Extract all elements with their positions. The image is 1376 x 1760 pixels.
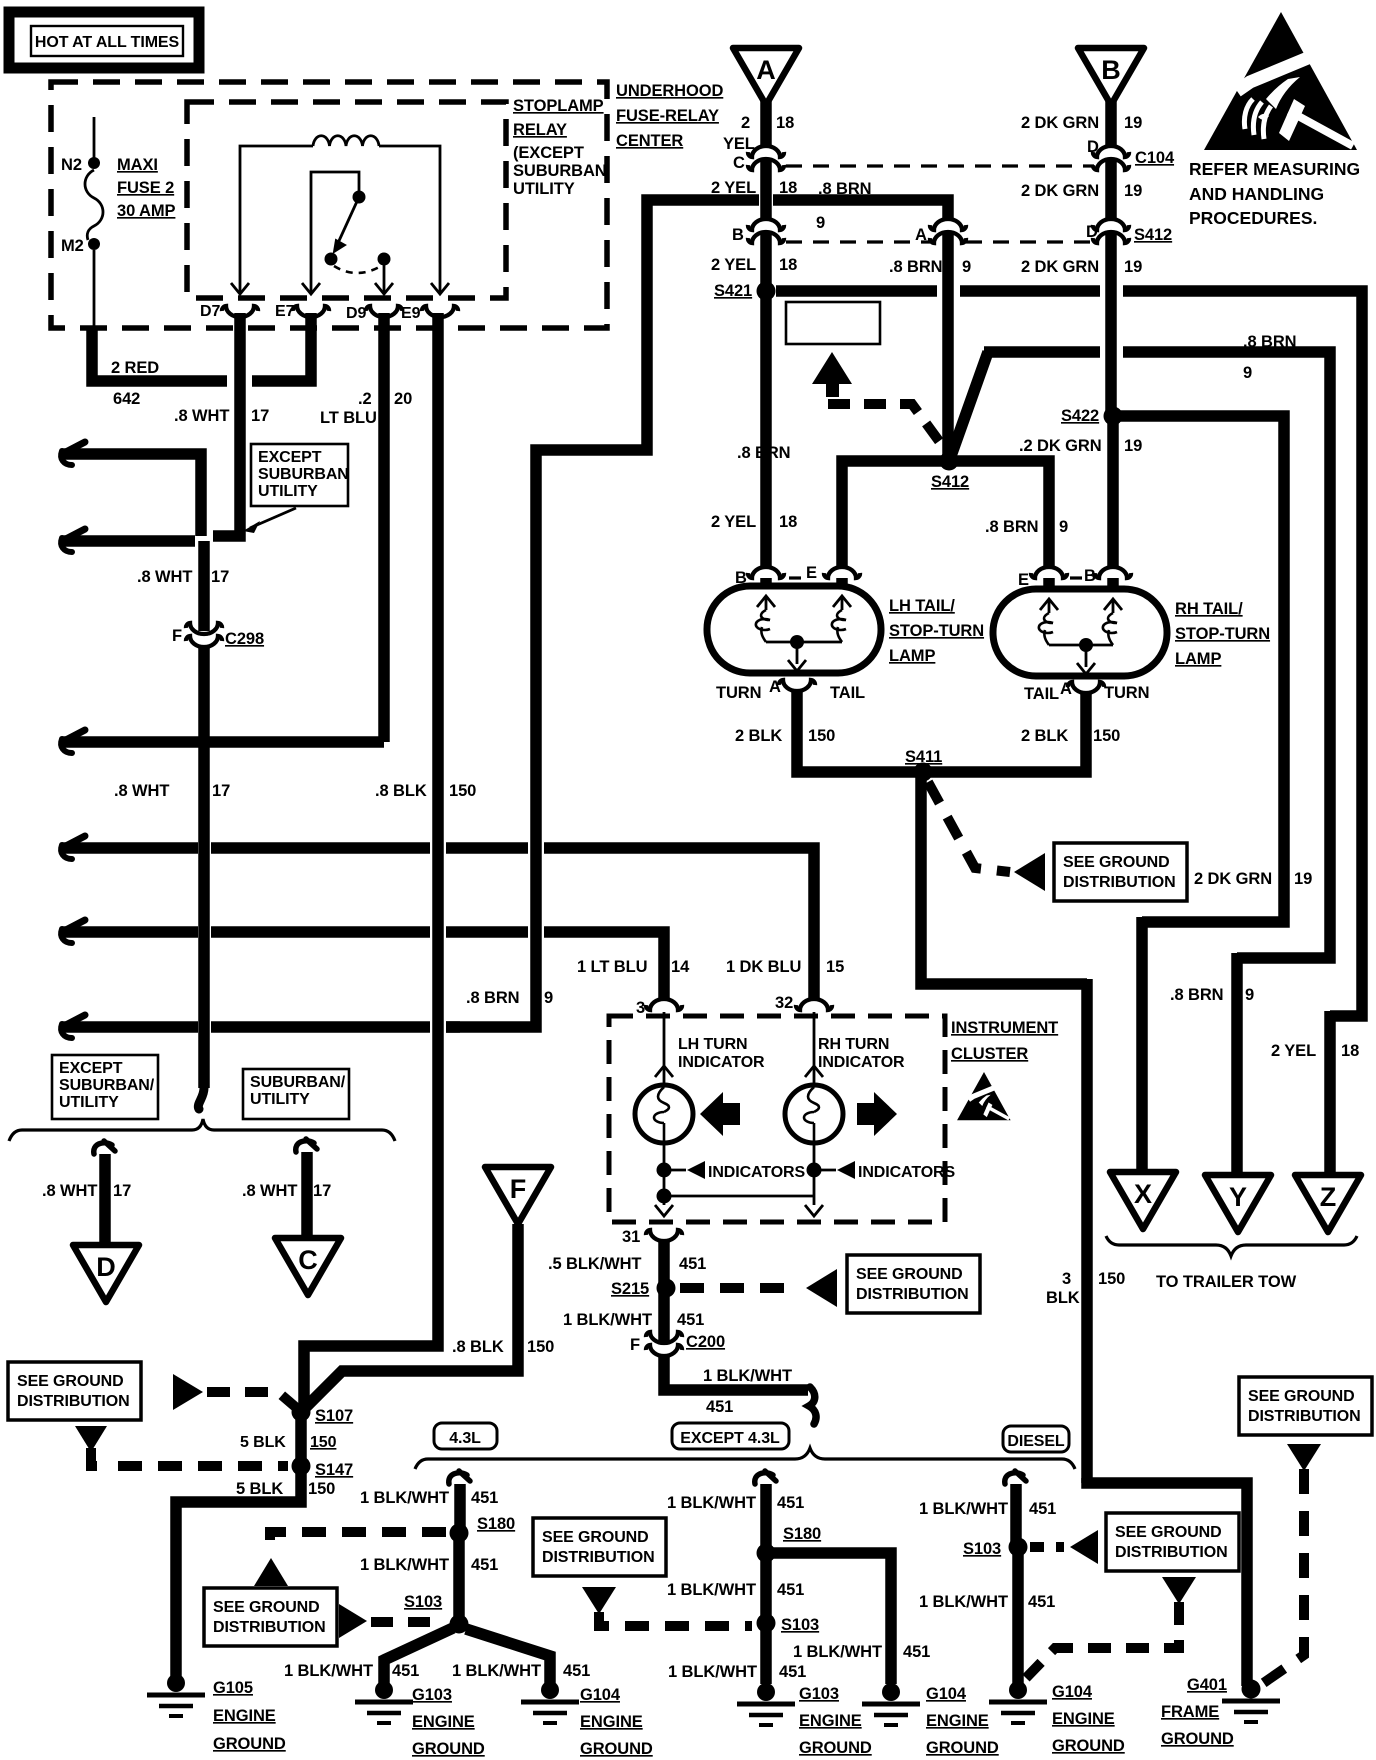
svg-text:19: 19	[1124, 258, 1142, 276]
svg-text:451: 451	[1028, 1593, 1055, 1611]
page connector X	[1110, 1172, 1176, 1229]
underhood fuse-relay center dashed box	[51, 82, 607, 328]
svg-text:YEL: YEL	[723, 135, 755, 153]
see ground distribution box at S215	[847, 1255, 980, 1313]
dashed wire to S103 EXCEPT	[599, 1612, 752, 1626]
svg-text:.8 BRN: .8 BRN	[1243, 333, 1297, 351]
svg-text:451: 451	[706, 1398, 733, 1416]
RH exit arrow	[805, 1205, 823, 1216]
svg-text:1 BLK/WHT: 1 BLK/WHT	[793, 1643, 882, 1661]
svg-text:INDICATORS: INDICATORS	[858, 1164, 956, 1181]
svg-text:B: B	[1084, 567, 1096, 585]
wire .8 BRN A to S412	[942, 233, 954, 456]
LH turn indicator bulb	[635, 1085, 693, 1143]
wire 2 DK GRN to S422	[1105, 233, 1117, 416]
svg-text:HOT AT ALL TIMES: HOT AT ALL TIMES	[35, 34, 180, 51]
svg-text:451: 451	[1029, 1500, 1056, 1518]
connector cup at LH lamp pin A	[779, 680, 815, 691]
svg-text:ENGINE: ENGINE	[580, 1713, 643, 1731]
svg-text:2 YEL: 2 YEL	[711, 513, 756, 531]
wire 1 BLK/WHT to G103	[384, 1628, 453, 1684]
callout box SUBURBAN/ UTILITY right	[243, 1069, 349, 1119]
ground G103 4.3L	[375, 1681, 393, 1699]
svg-text:1 BLK/WHT: 1 BLK/WHT	[452, 1662, 541, 1680]
svg-text:TO TRAILER TOW: TO TRAILER TOW	[1156, 1273, 1297, 1291]
svg-text:1 BLK/WHT: 1 BLK/WHT	[284, 1662, 373, 1680]
svg-text:.8 WHT: .8 WHT	[174, 407, 229, 425]
svg-text:9: 9	[816, 214, 825, 232]
RH lamp ground lead arrow	[1085, 645, 1088, 667]
svg-text:451: 451	[679, 1255, 706, 1273]
svg-text:3: 3	[1062, 1270, 1071, 1288]
svg-text:3: 3	[636, 999, 645, 1017]
svg-text:N2: N2	[61, 156, 82, 174]
wire 1 BLK/WHT S103 to G103 EXCEPT	[760, 1623, 772, 1684]
wire .8 BRN S412 left branch to LH lamp E	[842, 461, 949, 568]
page connector Z	[1295, 1175, 1361, 1232]
svg-text:C200: C200	[686, 1333, 725, 1351]
svg-text:LAMP: LAMP	[1175, 650, 1221, 668]
svg-text:S103: S103	[963, 1540, 1001, 1558]
svg-text:.8 BRN: .8 BRN	[889, 258, 943, 276]
svg-text:451: 451	[563, 1662, 590, 1680]
ground G105	[167, 1674, 185, 1692]
svg-text:ENGINE: ENGINE	[1052, 1710, 1115, 1728]
connector D at S412 row	[1093, 219, 1129, 230]
svg-text:150: 150	[308, 1480, 335, 1498]
svg-text:FUSE 2: FUSE 2	[117, 179, 174, 197]
splice S180 4.3L	[450, 1524, 469, 1543]
LH lamp common junction	[790, 635, 804, 649]
svg-text:.8 BRN: .8 BRN	[737, 444, 791, 462]
svg-text:TURN: TURN	[716, 684, 761, 702]
wire 1 BLK/WHT S180 to S103 EXCEPT	[760, 1553, 772, 1623]
svg-text:SUBURBAN/: SUBURBAN/	[250, 1074, 346, 1091]
brace for suburban variants	[9, 1119, 395, 1141]
wire 1 BLK/WHT DIESEL drop	[1005, 1471, 1026, 1484]
dashed wire from box to G401	[1262, 1469, 1304, 1684]
wire 2 RED to E7	[252, 313, 311, 381]
svg-text:5 BLK: 5 BLK	[240, 1434, 286, 1451]
splice S103 4.3L	[450, 1615, 469, 1634]
svg-text:14: 14	[671, 958, 690, 976]
wire 2 DK GRN from B	[1105, 100, 1117, 147]
connector cup 31 below cluster	[646, 1230, 682, 1241]
svg-text:1 LT BLU: 1 LT BLU	[577, 958, 647, 976]
svg-text:SUBURBAN: SUBURBAN	[258, 466, 349, 483]
svg-text:S421: S421	[714, 282, 752, 300]
svg-text:2 BLK: 2 BLK	[735, 727, 782, 745]
svg-text:EXCEPT 4.3L: EXCEPT 4.3L	[680, 1430, 780, 1447]
wire 2 DK GRN down to X	[1136, 917, 1148, 1172]
lamp RH TAIL/STOP-TURN body	[993, 589, 1167, 676]
terminal E7 connector	[293, 306, 329, 317]
wire 5 BLK S107 to S147	[295, 1412, 307, 1466]
svg-text:DISTRIBUTION: DISTRIBUTION	[1063, 874, 1176, 891]
svg-text:F: F	[510, 1174, 527, 1204]
svg-text:1 BLK/WHT: 1 BLK/WHT	[919, 1500, 1008, 1518]
wire 1 BLK/WHT 4.3L drop	[449, 1471, 470, 1484]
svg-text:DISTRIBUTION: DISTRIBUTION	[856, 1286, 969, 1303]
svg-text:451: 451	[903, 1643, 930, 1661]
svg-text:A: A	[915, 226, 927, 244]
LH indicator lower lead	[663, 1143, 666, 1205]
svg-text:C: C	[298, 1245, 318, 1275]
svg-text:CENTER: CENTER	[616, 132, 683, 150]
svg-text:UTILITY: UTILITY	[258, 483, 318, 500]
wire 1 BLK/WHT EXCEPT 4.3L drop	[755, 1471, 776, 1484]
wire 2 RED 642 from fuse	[92, 326, 227, 381]
svg-text:DISTRIBUTION: DISTRIBUTION	[1115, 1544, 1228, 1561]
svg-text:17: 17	[212, 782, 230, 800]
svg-text:INDICATOR: INDICATOR	[678, 1054, 765, 1071]
splice S411	[914, 763, 933, 782]
wire relay contact to D9	[383, 265, 386, 284]
wire .2 DK GRN S422 to RH lamp B	[1107, 416, 1119, 568]
svg-text:S180: S180	[477, 1515, 515, 1533]
svg-text:GROUND: GROUND	[926, 1739, 999, 1757]
svg-text:.8 WHT: .8 WHT	[137, 568, 192, 586]
svg-text:D9: D9	[346, 305, 366, 322]
svg-text:ENGINE: ENGINE	[799, 1712, 862, 1730]
wire 2 YEL B to S421	[760, 233, 772, 291]
svg-text:1 BLK/WHT: 1 BLK/WHT	[668, 1663, 757, 1681]
svg-text:9: 9	[1059, 518, 1068, 536]
wire 1 BLK/WHT S103 DIESEL to G104	[1012, 1547, 1024, 1684]
svg-text:451: 451	[779, 1663, 806, 1681]
see ground distribution box DIESEL	[1106, 1513, 1239, 1571]
svg-text:20: 20	[394, 390, 412, 408]
svg-text:18: 18	[779, 513, 797, 531]
svg-text:19: 19	[1124, 437, 1142, 455]
arrow down from DIESEL box	[1162, 1577, 1196, 1604]
wire 2 DK GRN S422 branch to X	[1113, 416, 1284, 922]
svg-text:2 DK GRN: 2 DK GRN	[1021, 258, 1099, 276]
svg-text:451: 451	[471, 1489, 498, 1507]
svg-text:G401: G401	[1187, 1676, 1227, 1694]
svg-text:F: F	[172, 627, 182, 645]
page connector B	[1078, 48, 1144, 105]
svg-text:S103: S103	[781, 1616, 819, 1634]
svg-text:A: A	[756, 55, 776, 85]
svg-text:19: 19	[1124, 114, 1142, 132]
svg-text:C298: C298	[225, 630, 264, 648]
page exit arrow row 4 1 DK BLU	[62, 836, 85, 848]
svg-text:(EXCEPT: (EXCEPT	[513, 144, 584, 162]
svg-text:150: 150	[449, 782, 476, 800]
variant box EXCEPT 4.3L	[672, 1423, 789, 1449]
svg-text:RH TURN: RH TURN	[818, 1036, 889, 1053]
connector cap at RH lamp pin B	[1095, 567, 1131, 578]
page exit arrow row 3 .2 LT BLU	[62, 730, 85, 742]
dashed wire to S107	[207, 1392, 299, 1410]
svg-text:.2: .2	[358, 390, 372, 408]
dashed wire to S103 4.3L	[371, 1617, 445, 1627]
wire .8 BRN Y branch horizontal	[984, 346, 1100, 358]
connector C104 in-line	[1093, 146, 1129, 157]
svg-text:SEE GROUND: SEE GROUND	[17, 1373, 124, 1390]
svg-text:2: 2	[741, 114, 750, 132]
svg-text:1 BLK/WHT: 1 BLK/WHT	[703, 1367, 792, 1385]
terminal E9 connector	[422, 306, 458, 317]
wire .8 BRN right branch to connector A	[773, 200, 948, 220]
splice S107	[292, 1403, 311, 1422]
svg-text:LAMP: LAMP	[889, 647, 935, 665]
svg-text:GROUND: GROUND	[412, 1740, 485, 1758]
arrow to see ground distribution box	[1014, 853, 1045, 891]
svg-text:9: 9	[544, 989, 553, 1007]
svg-text:.8 BLK: .8 BLK	[452, 1338, 504, 1356]
svg-text:E9: E9	[401, 305, 421, 322]
connector cap at LH lamp pin B	[748, 567, 784, 578]
arrow right from box to S103 wire	[339, 1604, 367, 1638]
dashed wire to S147	[91, 1448, 112, 1466]
arrow left into wire from DIESEL box	[1070, 1530, 1098, 1564]
see ground distribution box right of S411	[1054, 843, 1187, 901]
svg-text:32: 32	[775, 994, 793, 1012]
svg-text:G103: G103	[799, 1685, 839, 1703]
wire .8 BLK from E9	[304, 313, 438, 1407]
svg-text:5 BLK: 5 BLK	[236, 1480, 283, 1498]
svg-text:31: 31	[622, 1228, 640, 1246]
wire 3 BLK down right side	[1081, 979, 1093, 1483]
splice S215	[657, 1279, 676, 1298]
RH lamp tail filament	[1104, 599, 1122, 610]
svg-text:D: D	[1087, 138, 1099, 156]
wire 1 BLK/WHT S180 to S103 4.3L	[453, 1533, 465, 1624]
LH exit arrow	[655, 1205, 673, 1216]
svg-text:EXCEPT: EXCEPT	[59, 1060, 123, 1077]
dashed wire S411 to ground distribution	[928, 782, 1010, 872]
node at LH cross tie	[657, 1189, 672, 1204]
svg-text:18: 18	[776, 114, 794, 132]
splice S103 DIESEL	[1009, 1538, 1028, 1557]
svg-text:1 BLK/WHT: 1 BLK/WHT	[919, 1593, 1008, 1611]
RH lamp stop-turn filament	[1040, 599, 1058, 610]
svg-text:S412: S412	[931, 473, 969, 491]
splice S103 EXCEPT 4.3L	[757, 1614, 776, 1633]
svg-text:S411: S411	[905, 748, 942, 766]
RH turn indicator lead	[813, 1012, 816, 1085]
svg-text:DISTRIBUTION: DISTRIBUTION	[1248, 1408, 1361, 1425]
relay switch arm	[338, 197, 359, 243]
dashed wire S103 DIESEL to ground distribution	[1030, 1542, 1064, 1552]
svg-text:E: E	[1018, 571, 1029, 589]
wire stub into LH lamp E	[836, 578, 848, 588]
wire 2 YEL down to Z	[1324, 1011, 1336, 1175]
dashed wire from DIESEL box to G104	[1026, 1602, 1179, 1678]
svg-text:B: B	[732, 226, 744, 244]
svg-text:AND HANDLING: AND HANDLING	[1189, 184, 1324, 204]
see ground distribution box EXCEPT 4.3L	[533, 1518, 666, 1576]
svg-text:.5 BLK/WHT: .5 BLK/WHT	[548, 1255, 641, 1273]
page exit arrow row 5 1 LT BLU	[62, 920, 85, 932]
svg-text:GROUND: GROUND	[1052, 1737, 1125, 1755]
wire .8 WHT from D7	[213, 313, 240, 536]
svg-text:TURN: TURN	[1104, 684, 1149, 702]
svg-text:LT BLU: LT BLU	[320, 409, 377, 427]
LH lamp internal bus	[766, 641, 842, 644]
svg-text:150: 150	[310, 1434, 337, 1451]
wire 1 BLK/WHT C200 to variant brace	[664, 1355, 808, 1390]
relay common contact	[353, 191, 366, 204]
ESD symbol small in cluster	[957, 1072, 1011, 1120]
svg-text:2 DK GRN: 2 DK GRN	[1194, 870, 1272, 888]
relay contact left	[325, 253, 338, 266]
svg-text:ENGINE: ENGINE	[412, 1713, 475, 1731]
page exit arrow row 6 .8 BRN	[62, 1015, 85, 1027]
hook at end of .8 WHT wire	[198, 1088, 204, 1109]
callout box empty	[786, 302, 880, 344]
page connector A	[733, 48, 799, 105]
wire .8 BRN S412 diagonal to Y branch	[951, 352, 988, 456]
svg-text:ENGINE: ENGINE	[926, 1712, 989, 1730]
RH lamp internal bus	[1049, 644, 1113, 647]
arrow up to callout box	[812, 352, 852, 384]
connector C200 in-line	[646, 1332, 682, 1343]
svg-text:UNDERHOOD: UNDERHOOD	[616, 82, 723, 100]
arrow down from G401 box	[1287, 1444, 1321, 1471]
arrow to see ground distribution from S215	[806, 1269, 837, 1307]
lamp LH TAIL/STOP-TURN body	[707, 586, 881, 673]
svg-text:.8 BRN: .8 BRN	[985, 518, 1039, 536]
relay contact travel dashed arc	[334, 266, 381, 273]
RH turn indicator bulb	[785, 1085, 843, 1143]
splice S180 EXCEPT 4.3L	[757, 1544, 776, 1563]
see ground distribution box at S107	[8, 1362, 141, 1420]
terminal E7 arrow	[310, 284, 313, 294]
svg-text:TAIL: TAIL	[1024, 685, 1059, 703]
wire .2 LT BLU from D9	[378, 313, 390, 742]
svg-text:S412: S412	[1134, 226, 1172, 244]
see ground distribution box at G401	[1239, 1377, 1372, 1435]
wire coil left lead to D7	[240, 146, 313, 284]
svg-text:E: E	[806, 564, 817, 582]
svg-text:GROUND: GROUND	[1161, 1730, 1234, 1748]
connector C in-line	[748, 146, 784, 157]
svg-text:.8 BLK: .8 BLK	[375, 782, 427, 800]
svg-text:451: 451	[471, 1556, 498, 1574]
arrow INDICATORS RH	[837, 1161, 855, 1179]
connector A of C104	[930, 219, 966, 230]
ESD warning symbol	[1204, 12, 1357, 150]
svg-text:TAIL: TAIL	[830, 684, 865, 702]
LH lamp tail filament	[833, 596, 851, 607]
splice S421	[757, 282, 776, 301]
RH lamp common junction	[1079, 638, 1093, 652]
arrow up from box to S180 wire	[254, 1558, 288, 1586]
splice S422	[1104, 407, 1123, 426]
svg-text:1 BLK/WHT: 1 BLK/WHT	[667, 1494, 756, 1512]
svg-text:STOP-TURN: STOP-TURN	[889, 622, 984, 640]
svg-text:2 BLK: 2 BLK	[1021, 727, 1068, 745]
wire 2 YEL S421 to right edge	[776, 285, 937, 297]
svg-text:X: X	[1134, 1179, 1152, 1209]
svg-text:SUBURBAN: SUBURBAN	[513, 162, 607, 180]
wire coil right lead to E9	[379, 146, 440, 284]
node at RH indicators tap	[807, 1163, 822, 1178]
svg-text:LH TURN: LH TURN	[678, 1036, 748, 1053]
node at LH indicators tap	[657, 1163, 672, 1178]
svg-text:1 BLK/WHT: 1 BLK/WHT	[360, 1556, 449, 1574]
svg-text:2 YEL: 2 YEL	[1271, 1042, 1316, 1060]
terminal D9 arrow	[383, 284, 386, 294]
svg-text:2 DK GRN: 2 DK GRN	[1021, 114, 1099, 132]
instrument cluster dashed box	[609, 1016, 945, 1222]
svg-text:18: 18	[779, 256, 797, 274]
svg-text:BLK: BLK	[1046, 1289, 1080, 1307]
dashed wire S215 to ground distribution	[680, 1283, 800, 1293]
svg-text:DISTRIBUTION: DISTRIBUTION	[542, 1549, 655, 1566]
svg-text:LH TAIL/: LH TAIL/	[889, 597, 955, 615]
hook into 4.3L variants brace	[809, 1387, 816, 1424]
svg-text:GROUND: GROUND	[799, 1739, 872, 1757]
svg-text:451: 451	[777, 1581, 804, 1599]
page connector C	[275, 1238, 341, 1295]
wire .8 WHT drop to D	[94, 1141, 115, 1154]
svg-text:F: F	[630, 1336, 640, 1354]
svg-text:G105: G105	[213, 1679, 253, 1697]
wire E7 to relay common	[311, 172, 359, 284]
svg-text:STOP-TURN: STOP-TURN	[1175, 625, 1270, 643]
svg-text:1 BLK/WHT: 1 BLK/WHT	[667, 1581, 756, 1599]
svg-text:GROUND: GROUND	[213, 1735, 286, 1753]
ground G104 4.3L	[541, 1681, 559, 1699]
svg-text:RH TAIL/: RH TAIL/	[1175, 600, 1243, 618]
wire 1 BLK/WHT S180 branch to G104	[766, 1553, 891, 1684]
svg-text:A: A	[769, 678, 781, 696]
svg-text:17: 17	[313, 1182, 331, 1200]
svg-text:4.3L: 4.3L	[449, 1430, 481, 1447]
page connector F	[485, 1167, 551, 1224]
wire .8 BLK from F to S107	[306, 1224, 518, 1407]
svg-text:S147: S147	[315, 1461, 353, 1479]
svg-text:UTILITY: UTILITY	[59, 1094, 119, 1111]
svg-text:19: 19	[1124, 182, 1142, 200]
wire 3 BLK to G401	[1087, 1478, 1247, 1686]
svg-text:EXCEPT: EXCEPT	[258, 449, 322, 466]
svg-text:FUSE-RELAY: FUSE-RELAY	[616, 107, 719, 125]
svg-text:451: 451	[677, 1311, 704, 1329]
wire stub into LH lamp B	[760, 578, 772, 588]
svg-text:FRAME: FRAME	[1161, 1703, 1219, 1721]
svg-text:150: 150	[527, 1338, 554, 1356]
svg-text:A: A	[1060, 680, 1072, 698]
svg-text:C104: C104	[1135, 149, 1175, 167]
ground G103 EXCEPT 4.3L	[757, 1683, 775, 1701]
wire 2 YEL from A	[760, 100, 772, 147]
wire stub into RH lamp B	[1107, 578, 1119, 591]
wire .8 BRN down to Y	[1231, 953, 1243, 1175]
callout pointer arrow	[250, 508, 296, 528]
dashed wire into S412	[828, 404, 947, 452]
terminal D7 arrow	[239, 284, 242, 294]
LH turn indicator lead	[663, 1012, 666, 1085]
svg-text:SEE GROUND: SEE GROUND	[213, 1599, 320, 1616]
svg-text:G104: G104	[1052, 1683, 1093, 1701]
wire 1 BLK/WHT to G104	[466, 1629, 550, 1684]
svg-text:.2 DK GRN: .2 DK GRN	[1019, 437, 1102, 455]
svg-text:UTILITY: UTILITY	[250, 1091, 310, 1108]
wire 2 BLK from LH lamp	[797, 689, 918, 772]
brace across engine variants	[415, 1448, 1075, 1469]
svg-text:B: B	[1101, 55, 1121, 85]
svg-text:SEE GROUND: SEE GROUND	[856, 1266, 963, 1283]
see ground distribution box 4.3L	[204, 1588, 337, 1646]
LH lamp stop-turn filament	[757, 596, 775, 607]
svg-text:2 DK GRN: 2 DK GRN	[1021, 182, 1099, 200]
svg-text:2 YEL: 2 YEL	[711, 256, 756, 274]
